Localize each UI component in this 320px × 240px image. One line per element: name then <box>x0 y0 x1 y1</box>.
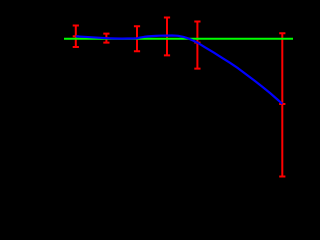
blue data curve <box>76 36 282 104</box>
marker point 5 <box>194 42 200 44</box>
marker point 1 <box>73 35 79 37</box>
error bar 5 <box>194 22 200 69</box>
marker point 4 <box>164 35 170 37</box>
error bar 2 <box>103 34 109 43</box>
error bar 6 <box>279 33 285 176</box>
marker point 6 <box>279 103 285 105</box>
marker point 3 <box>134 37 140 39</box>
green reference line <box>64 38 293 40</box>
error bar 1 <box>73 26 79 48</box>
error bar 3 <box>134 26 140 51</box>
error bar 4 <box>164 18 170 56</box>
marker point 2 <box>103 37 109 39</box>
